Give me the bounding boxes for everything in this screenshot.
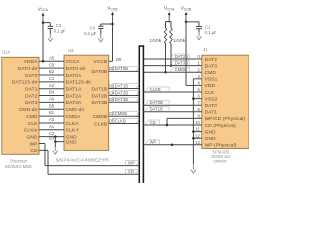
ground below U2 GND pins [53,147,58,154]
svg-text:DAT0B: DAT0B [91,69,107,75]
svg-text:A5: A5 [49,55,55,60]
processor block U1A [2,49,39,154]
svg-text:CMD-dir: CMD-dir [66,107,85,113]
U2 left pin numbers [49,55,55,140]
wire U1A.DAT1 to U2.DAT1A [39,88,64,90]
svg-text:CD: CD [150,120,156,125]
svg-text:GND: GND [205,129,216,135]
wire J1.GND pin 11 stub [193,131,201,133]
svg-text:CLK: CLK [28,121,38,127]
svg-text:DAT0-dir: DAT0-dir [66,66,86,72]
svg-text:CLKin: CLKin [24,128,38,134]
svg-text:DAT3B: DAT3B [175,60,189,65]
svg-text:C3: C3 [56,23,62,28]
svg-text:CD: CD [128,169,134,174]
svg-text:VCCB: VCCB [93,59,107,65]
svg-text:VCCA: VCCA [38,6,49,12]
wire net CD from bus to J1.CD pin 10 [143,120,201,125]
wire VCCB to J1 VDD pin 4 [186,84,202,86]
svg-text:VCCA: VCCA [66,59,81,65]
svg-text:CD: CD [30,148,38,154]
junction GND 11 [192,130,195,133]
svg-text:WP: WP [128,160,135,165]
svg-text:DAT3B: DAT3B [91,100,107,106]
svg-text:DAT3: DAT3 [205,63,218,69]
svg-text:100k: 100k [173,38,187,43]
capacitor C3 0.1 uF [43,23,66,42]
wire J1.WP/CD pin 9 stub [167,117,202,119]
svg-text:VDDA: VDDA [24,59,39,65]
wire bus to J1.DAT3 pin 1 (net DAT3B) [143,60,201,65]
svg-text:DAT2: DAT2 [25,93,38,99]
svg-text:CMDB: CMDB [93,114,108,120]
svg-text:0.1 µF: 0.1 µF [205,30,217,35]
junction 100k to CMDB [164,71,167,74]
wire U1A.VDDA to U2.VCCA [39,60,64,62]
resistor 100k (pull-up to DAT3B) [170,28,187,66]
svg-text:DAT1A: DAT1A [66,87,83,93]
svg-text:B4: B4 [49,90,55,95]
svg-text:CLKB: CLKB [115,118,126,123]
caption: Processor SD/SDIO MMC [5,158,33,169]
wire bus to J1.CMD pin 2 (net CMDB) [143,67,201,72]
svg-text:A3: A3 [49,117,55,122]
svg-text:U1A: U1A [2,49,10,54]
svg-text:DAT0: DAT0 [25,73,38,79]
svg-text:CMD: CMD [26,114,38,120]
svg-text:100k: 100k [149,38,163,43]
wire U2.GND pin B3 stub [55,141,64,143]
svg-text:DAT2A: DAT2A [66,93,83,99]
svg-text:DAT1: DAT1 [25,87,38,93]
svg-text:DAT0: DAT0 [205,103,218,109]
svg-text:CLKB: CLKB [150,87,161,92]
svg-text:DAT123-dir: DAT123-dir [66,80,92,86]
svg-text:C4: C4 [90,25,96,30]
svg-text:C5: C5 [49,62,55,67]
svg-text:DAT1B: DAT1B [115,83,129,88]
wire U1A.CLKin to U2.CLK-f [39,129,64,131]
power VCCA (left) [38,6,49,61]
svg-text:CLKB: CLKB [94,121,107,127]
svg-text:DAT3B: DAT3B [115,97,129,102]
svg-text:DAT0B: DAT0B [150,100,164,105]
svg-text:WP: WP [30,141,38,147]
ground below J1 [191,164,196,174]
svg-text:WP (Physical): WP (Physical) [205,143,237,149]
wire U1A.DAT0-dir to U2.DAT0-dir [39,67,64,69]
svg-text:CLK: CLK [205,90,215,96]
svg-text:CMD-dir: CMD-dir [19,107,38,113]
power VCCB (above U2) [107,6,118,62]
wire J1.VSS1 pin 3 stub [193,78,201,80]
svg-text:VCCA: VCCA [164,6,175,12]
svg-text:0.1 µF: 0.1 µF [84,31,96,36]
wire U1A.CMD to U2.CMDA [39,115,64,117]
wire U1A.WP to bus (net WP) [39,144,139,166]
svg-text:A2: A2 [49,83,55,88]
capacitor C1 0.1 uF [186,22,217,40]
wire U1A.CMD-dir to U2.CMD-dir [39,108,64,110]
svg-text:DAT0A: DAT0A [66,73,83,79]
wire U1A.DAT2 to U2.DAT2A [39,95,64,97]
svg-text:DAT1B: DAT1B [91,86,107,92]
wire bus to J1.CLK pin 5 (net CLKB) [143,87,201,92]
svg-text:12: 12 [195,133,200,138]
wire U2.DAT1B to bus, pin D1 [109,83,140,88]
svg-text:CD (Physical): CD (Physical) [205,123,237,129]
wire U2.CLKB to bus, pin D3 [109,118,140,123]
wire U1A.CD to bus (net CD) [39,150,139,174]
level translator U2 SN74AVCA406EZYR [64,48,109,150]
svg-text:SN74AVCA406EZYR: SN74AVCA406EZYR [56,158,109,163]
svg-text:J1: J1 [203,47,208,52]
svg-text:DAT3: DAT3 [25,100,38,106]
svg-text:A4: A4 [49,97,55,102]
wire U1A.DAT123-dir to U2.DAT123-dir [39,81,64,83]
svg-text:0.1 µF: 0.1 µF [54,29,66,34]
caption: 54794-0979 SD/SDIO card connector [211,150,230,164]
svg-text:DAT1B: DAT1B [150,107,164,112]
svg-text:DAT123-dir: DAT123-dir [12,80,38,86]
svg-text:CMDA: CMDA [66,114,81,120]
svg-text:DAT0-dir: DAT0-dir [18,66,38,72]
svg-text:VSS2: VSS2 [205,96,218,102]
bus (vertical) [139,46,145,183]
svg-text:GND: GND [66,139,77,145]
svg-text:B1: B1 [49,110,55,115]
wire CD to WP/CD vertical [166,118,168,125]
ground rail right [192,79,194,164]
junction CD net [166,124,169,127]
svg-text:B5: B5 [49,103,55,108]
svg-text:DAT3A: DAT3A [66,100,83,106]
svg-text:C1: C1 [205,24,211,29]
svg-text:CLKA: CLKA [66,121,80,127]
svg-text:B2: B2 [49,69,55,74]
svg-text:SD/SDIO MMC: SD/SDIO MMC [5,164,33,169]
wire U1A.DAT0 to U2.DAT0A [39,74,64,76]
power VCCA (right, pull-ups) [164,6,175,28]
svg-text:C1: C1 [49,76,55,81]
wire U1A.DAT3 to U2.DAT3A [39,101,64,103]
power VCCB (right) [181,6,192,86]
wire U2.DAT2B to bus, pin C4 [109,90,140,95]
svg-text:VDD: VDD [205,83,216,89]
svg-text:GND: GND [26,134,37,140]
junction VSS2 [192,97,195,100]
svg-text:B3: B3 [49,136,55,141]
node VCCA to VDDA wire junction [42,60,45,63]
svg-text:A1: A1 [49,124,55,129]
svg-text:Processor: Processor [10,158,28,163]
wire U2.CMDB to bus, pin C2 [109,111,140,116]
wire J1.VSS2 pin 6 stub [193,98,201,100]
svg-text:VCCB: VCCB [107,6,118,12]
svg-text:GND: GND [205,136,216,142]
svg-text:DAT1: DAT1 [205,110,218,116]
wire net WP from bus to J1.WP pin 13 [143,140,201,145]
svg-text:DAT0B: DAT0B [115,66,129,71]
svg-text:DAT2B: DAT2B [115,90,129,95]
junction VCCA / C3 [42,21,45,24]
wire bus to J1.DAT0 pin 7 (net DAT0B) [143,100,201,105]
junction U2 GND pins [54,135,57,147]
J1 pin numbers 0-13 [195,54,200,145]
wire U2.DAT3B to bus, pin D4 [109,97,140,102]
SD/SDIO card connector J1 [202,47,249,149]
resistor 100k (pull-up to CMDB) [149,28,167,72]
capacitor C4 0.1 uF [84,24,112,42]
svg-text:D5: D5 [116,57,122,62]
junction WP net [171,144,174,147]
svg-text:connector: connector [213,159,227,164]
svg-text:11: 11 [196,127,201,132]
wire bus to J1.DAT2 pin 0 (net DAT2B) [143,54,201,59]
svg-text:VCCB: VCCB [181,6,192,12]
junction VCCB / C1 [185,21,188,24]
svg-text:WP: WP [150,140,157,145]
svg-text:DAT2B: DAT2B [91,93,107,99]
svg-text:VSS1: VSS1 [205,77,218,83]
svg-text:10: 10 [195,120,200,125]
wire U1A.CLK to U2.CLKA [39,122,64,124]
junction 100k to DAT3B [170,64,173,67]
svg-text:DAT2: DAT2 [205,57,218,63]
junction GND 12 [192,137,195,140]
svg-text:CMD: CMD [205,70,217,76]
svg-text:13: 13 [195,140,200,145]
svg-text:CLK-f: CLK-f [66,128,80,134]
svg-text:WP/CD (Physical): WP/CD (Physical) [205,116,246,122]
junction VCCB / C4 [111,23,114,26]
wire J1.GND pin 12 stub [193,137,201,139]
wire bus to J1.DAT1 pin 8 (net DAT1B) [143,107,201,112]
svg-text:CMDB: CMDB [115,111,128,116]
wire U2.DAT0B to bus, pin D2 [109,66,140,71]
svg-text:DAT2B: DAT2B [175,54,189,59]
svg-text:CMDB: CMDB [175,67,188,72]
svg-text:U2: U2 [68,48,74,53]
wire U1A.GND to U2.GND [39,136,64,138]
